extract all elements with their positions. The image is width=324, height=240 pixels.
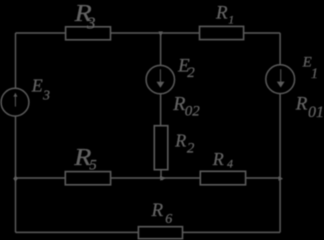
svg-text:01: 01 (308, 104, 324, 121)
source E2 arrow (down) (160, 69, 161, 82)
svg-text:R: R (215, 3, 228, 24)
junction node top (E2 branch / top wire) (158, 32, 163, 36)
resistor R2 (154, 126, 168, 170)
junction node right (right wire / middle wire) (279, 176, 284, 181)
svg-text:R: R (174, 131, 186, 151)
source E1 circle (266, 65, 295, 94)
svg-text:R: R (212, 149, 224, 169)
svg-text:R: R (295, 93, 308, 114)
svg-text:02: 02 (185, 104, 201, 120)
svg-text:1: 1 (228, 12, 234, 26)
svg-text:E: E (31, 75, 43, 95)
junction node R2 bottom (160, 176, 165, 181)
svg-text:2: 2 (187, 65, 195, 81)
svg-text:5: 5 (89, 158, 97, 174)
resistor R4 (200, 171, 245, 185)
svg-text:3: 3 (86, 14, 96, 33)
resistor R3 (66, 27, 111, 40)
svg-text:2: 2 (187, 140, 195, 156)
wire left (15, 33, 17, 232)
svg-text:1: 1 (311, 66, 318, 82)
wire bottom (16, 231, 281, 233)
source E3 circle (1, 88, 29, 116)
source E2 circle (146, 65, 174, 93)
svg-text:R: R (151, 200, 164, 221)
wire middle branch (160, 33, 162, 178)
svg-text:R: R (172, 93, 185, 115)
svg-text:4: 4 (227, 157, 233, 171)
resistor R1 (200, 26, 244, 39)
source E3 arrow (up) (15, 96, 16, 106)
resistor R6 (138, 227, 182, 239)
wire middle horizontal (16, 177, 280, 179)
wire right (279, 33, 281, 232)
source E1 arrow (down) (280, 69, 281, 82)
resistor R5 (65, 172, 110, 185)
wire top (16, 32, 281, 34)
junction node left (left wire / middle wire) (13, 176, 18, 181)
svg-text:3: 3 (42, 88, 50, 103)
svg-text:6: 6 (165, 212, 172, 227)
